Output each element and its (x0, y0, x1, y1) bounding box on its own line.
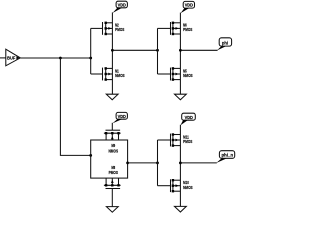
transistor M6 PMOS (158, 22, 193, 36)
svg-text:M9: M9 (111, 143, 115, 148)
wire (VDD column through M11, mid node, M10, down to ground) (179, 125, 181, 207)
wire (interstage: first inverter output to second inverter gates) (112, 49, 157, 51)
svg-text:phi_n: phi_n (222, 152, 234, 157)
node (output node of second inverter) (179, 49, 182, 52)
transistor M11 PMOS (158, 133, 193, 146)
svg-text:VDD: VDD (118, 114, 126, 119)
svg-text:VDD: VDD (185, 115, 193, 120)
svg-text:NMOS: NMOS (183, 185, 193, 190)
power VDD (top right) (181, 1, 195, 13)
wire (gate bus of M6 and M5) (157, 28, 159, 74)
ground (below M8) (106, 207, 118, 213)
svg-text:NMOS: NMOS (183, 73, 193, 78)
wire (M8 gate to ground) (111, 189, 113, 207)
svg-text:phi: phi (222, 40, 228, 45)
wire (branch from rail down and over to pass gate input) (60, 58, 90, 155)
svg-text:PMOS: PMOS (115, 27, 124, 32)
node (output node of M11/M10 inverter) (179, 162, 182, 165)
wire (VDD column through M6, mid node, M5, down to ground) (179, 13, 181, 95)
node (pass-gate output junction) (126, 162, 129, 165)
output port phi_n (216, 151, 235, 163)
svg-text:VDD: VDD (185, 3, 193, 8)
power VDD (top left) (113, 1, 128, 13)
output port phi (217, 38, 232, 51)
transistor M2 PMOS (91, 22, 125, 36)
transistor M1 NMOS (91, 67, 125, 81)
ground (below M10) (175, 206, 187, 212)
svg-text:BUF: BUF (7, 55, 15, 60)
wire (output to phi port) (180, 49, 217, 51)
ground (below M1) (106, 94, 118, 100)
node (junction on pass-gate left side) (89, 154, 92, 157)
svg-text:PMOS: PMOS (183, 27, 192, 32)
wire (pass-gate loop: left side, top, right side, bottom) (91, 140, 128, 178)
transistor M5 NMOS (158, 67, 193, 81)
wire (input stub to buffer) (0, 57, 6, 59)
power VDD (bottom right) (181, 113, 196, 125)
wire (output to phi_n port) (180, 162, 216, 164)
svg-text:VDD: VDD (118, 3, 126, 8)
wire (VDD to M9 gate) (111, 123, 113, 130)
transistor M9 NMOS (pass gate, gate tied to VDD) (104, 130, 121, 154)
power VDD (above M9) (112, 112, 127, 123)
buffer BUF (6, 49, 20, 66)
wire (VDD column through M2, mid node, M1, down to ground) (111, 12, 113, 94)
node (mid node of first inverter) (111, 49, 114, 52)
node (junction: rail to M2/M1 gate bus) (89, 57, 92, 60)
svg-text:NMOS: NMOS (115, 73, 125, 78)
ground (below M5) (175, 94, 187, 100)
wire (gate bus of M2 and M1) (90, 28, 92, 74)
node (junction on M11/M10 gate bus) (156, 162, 159, 165)
node (junction: rail to lower branch) (59, 57, 62, 60)
svg-text:M8: M8 (111, 165, 115, 170)
svg-text:PMOS: PMOS (183, 139, 192, 144)
transistor M10 NMOS (158, 179, 193, 192)
transistor M8 PMOS (pass gate, gate tied to ground) (104, 165, 121, 189)
wire (main rail from buffer to gate bus of M2/M1) (20, 57, 90, 59)
wire (pass-gate output to M11/M10 gate bus) (128, 162, 158, 164)
svg-text:NMOS: NMOS (109, 149, 119, 154)
svg-text:PMOS: PMOS (109, 170, 118, 175)
node (junction on M6/M5 gate bus) (156, 49, 159, 52)
wire (gate bus of M11 and M10) (157, 140, 159, 186)
